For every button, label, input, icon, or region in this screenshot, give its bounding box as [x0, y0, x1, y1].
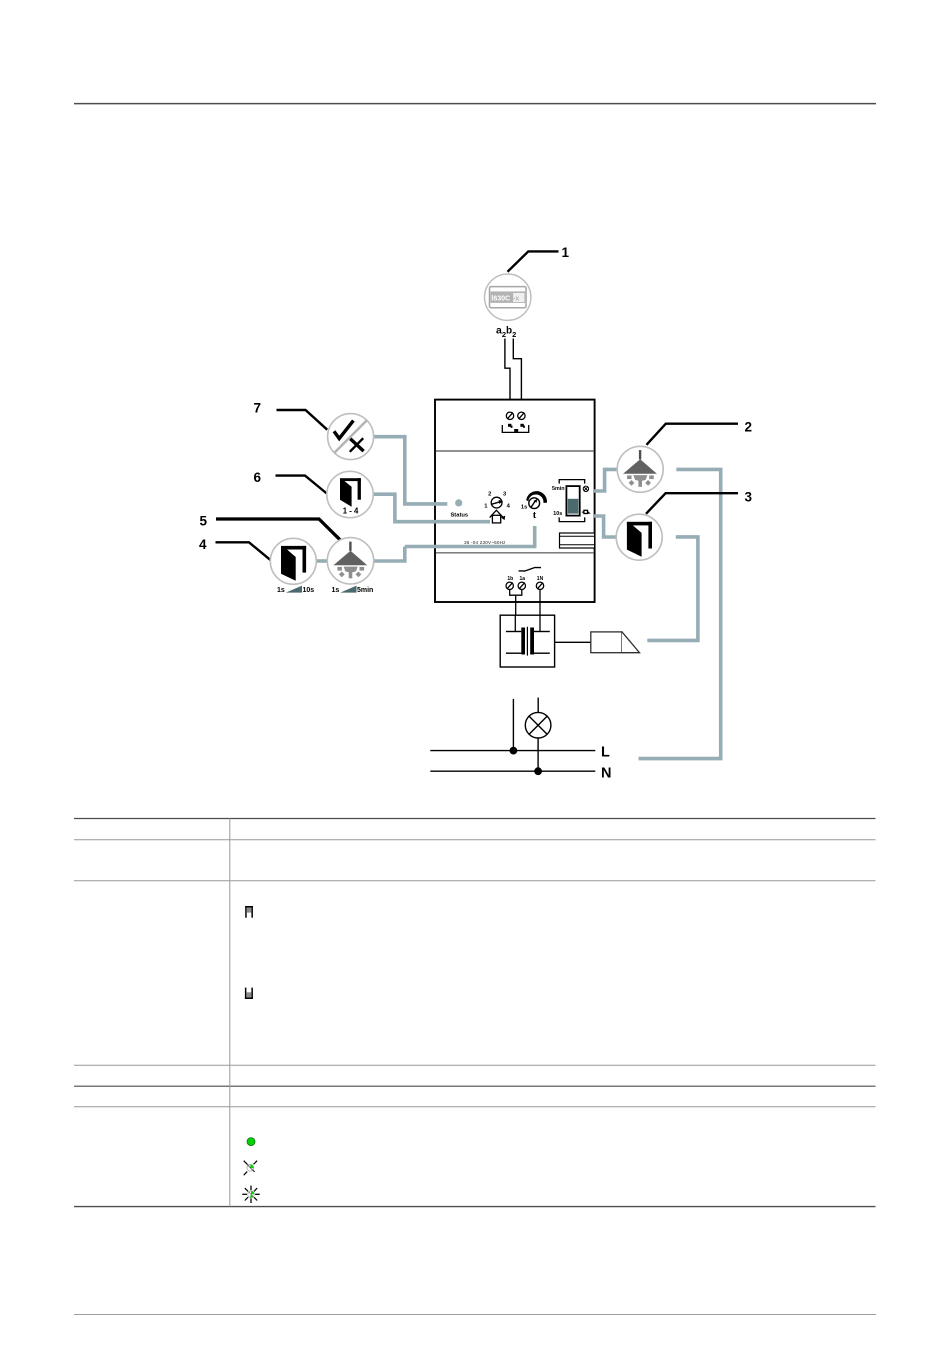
svg-text:5min: 5min	[552, 486, 565, 492]
callout line 4	[216, 542, 273, 561]
footer rule	[74, 1314, 876, 1316]
Status LED	[455, 499, 462, 506]
table row line 4	[74, 1064, 876, 1066]
connection line device to circle 2	[593, 469, 617, 491]
bus terminal tiny marks	[508, 424, 525, 432]
svg-text:t: t	[533, 510, 537, 521]
connection line from circle 6 to house icon	[373, 494, 490, 522]
connection line from circle 5 to potentiometer t	[374, 526, 535, 561]
device section divider (lower)	[436, 552, 594, 554]
label carrier box	[560, 533, 595, 548]
function switch bracket top	[559, 480, 585, 484]
function switch knob (teal)	[568, 499, 579, 514]
small door symbol right of switch	[582, 510, 591, 514]
callout line 7	[277, 410, 328, 430]
svg-text:36 -04 230V~50Hz: 36 -04 230V~50Hz	[464, 540, 506, 545]
table row line 6	[74, 1106, 876, 1108]
bus coupling unit U1 (circle 1)	[485, 274, 531, 320]
callout line 5 (thick)	[216, 519, 342, 542]
svg-text:1 - 4: 1 - 4	[343, 507, 359, 516]
lamp-cross symbol right of switch	[583, 486, 588, 491]
pushbutton symbol	[591, 632, 640, 653]
wire transformer to pushbutton	[555, 641, 591, 643]
bus terminal screw b	[518, 412, 525, 419]
callout line 6	[276, 476, 328, 494]
wire transformer to L junction	[512, 699, 514, 751]
output terminal screw 3	[536, 582, 543, 589]
mini switch icon down position	[245, 988, 253, 999]
bus wire a2	[505, 339, 510, 412]
svg-text:1N: 1N	[537, 576, 544, 582]
output terminal screw 1	[506, 582, 513, 589]
N line	[430, 770, 595, 772]
LED blinking icon	[242, 1186, 259, 1203]
wire screw3 to transformer	[539, 590, 541, 615]
svg-text:2: 2	[745, 420, 753, 435]
device enclosure	[435, 400, 595, 602]
callout circle 5: lamp group	[327, 538, 373, 584]
range label 1s-10s under circle 4	[277, 586, 314, 594]
wire bracket to transformer	[515, 595, 517, 615]
svg-text:Status: Status	[450, 512, 468, 518]
table row line 3	[74, 880, 876, 882]
time potentiometer arc	[526, 491, 547, 503]
svg-text:N: N	[601, 766, 611, 782]
callout circle 3: door group	[616, 514, 662, 560]
time potentiometer t	[529, 498, 540, 509]
function switch S2	[566, 486, 579, 515]
table row line 2	[74, 839, 876, 841]
junction on L	[510, 747, 518, 755]
LED on icon (green)	[247, 1138, 255, 1146]
callout circle 6: door 1-4 group	[327, 471, 373, 517]
svg-text:6: 6	[254, 470, 262, 485]
svg-text:1a: 1a	[520, 576, 526, 582]
bus terminal screw a	[506, 412, 513, 419]
svg-text:3: 3	[745, 489, 753, 504]
L line	[430, 750, 595, 752]
bus wire b2	[513, 339, 521, 412]
callout line 1	[508, 251, 559, 271]
svg-text:7: 7	[254, 400, 262, 415]
connection line device to circle 3	[593, 516, 617, 537]
svg-text:5min: 5min	[357, 587, 373, 594]
wire lamp to N	[537, 738, 539, 771]
output terminal screw 2	[518, 582, 525, 589]
svg-text:-x: -x	[513, 296, 519, 303]
table column divider	[229, 819, 231, 1207]
svg-text:l630C: l630C	[491, 296, 510, 303]
callout line 3	[646, 493, 738, 514]
floor selector dial S1	[484, 491, 510, 509]
callout circle 2: lamp group	[617, 446, 663, 492]
output terminal bracket	[510, 590, 522, 595]
LED off icon (crossed)	[244, 1161, 257, 1176]
svg-text:1b: 1b	[507, 576, 513, 582]
svg-text:1: 1	[562, 245, 570, 260]
connection line circle 4 to circle 5	[316, 559, 328, 563]
svg-text:4: 4	[199, 537, 207, 552]
connection line circle 3 to pushbutton	[647, 537, 698, 641]
lamp E1	[525, 712, 551, 738]
svg-text:L: L	[601, 745, 610, 761]
callout line 2	[647, 424, 739, 445]
connection line from circle 7 to Status LED	[374, 437, 448, 504]
junction on N	[534, 767, 542, 775]
wire to lamp top	[537, 698, 539, 713]
svg-text:10s: 10s	[553, 511, 562, 517]
relay contact symbol	[519, 567, 541, 571]
svg-text:1s: 1s	[277, 587, 285, 594]
callout circle 4: door group	[270, 538, 316, 584]
svg-text:a2b2: a2b2	[496, 325, 516, 340]
bell transformer T1	[500, 615, 554, 667]
callout circle 7: commissioning check icon	[328, 414, 374, 460]
table row line 1	[74, 818, 876, 820]
svg-text:5: 5	[200, 513, 208, 528]
svg-text:1s: 1s	[521, 504, 527, 510]
table row line 5	[74, 1085, 876, 1087]
header rule	[74, 103, 876, 105]
bus terminal bracket	[502, 425, 528, 432]
device section divider (upper)	[436, 450, 594, 452]
range label 1s-5min under circle 5	[332, 586, 374, 594]
function switch bracket bottom	[559, 517, 585, 521]
svg-text:10s: 10s	[303, 587, 315, 594]
connection line circle 2 to N wire area	[639, 469, 721, 758]
house icon below dial	[490, 510, 506, 523]
table bottom line	[74, 1206, 876, 1208]
mini switch icon up position	[245, 906, 253, 918]
svg-text:1s: 1s	[332, 587, 340, 594]
svg-text:2: 2	[488, 491, 491, 497]
